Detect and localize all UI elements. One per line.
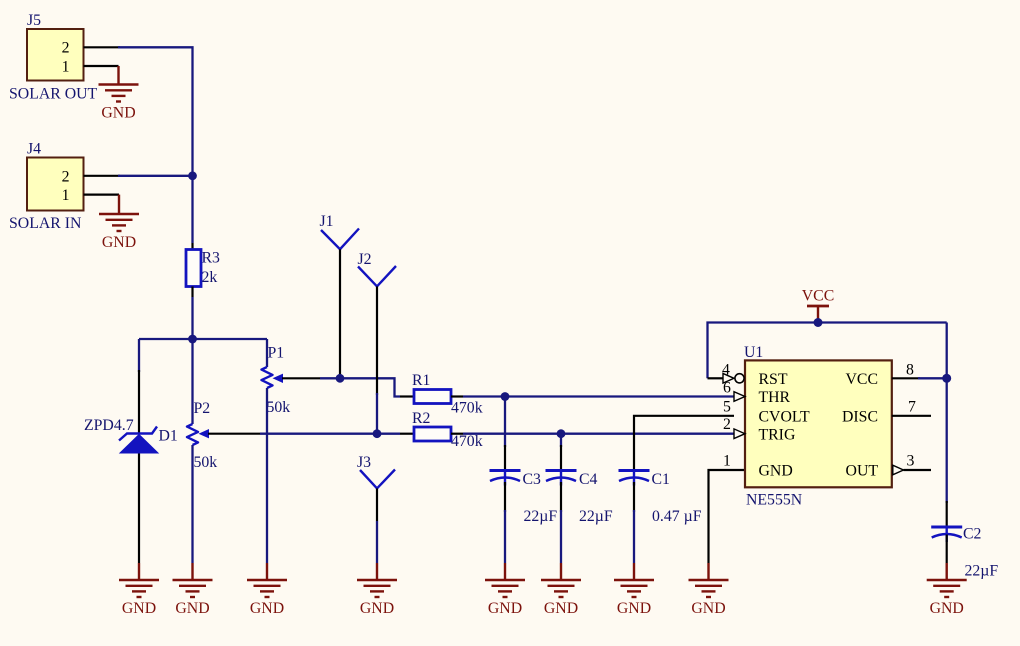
R2 left pin: [400, 433, 414, 435]
svg-text:D1: D1: [159, 428, 178, 445]
U1 pin 2 TRIG triangle: [734, 429, 745, 439]
svg-text:C1: C1: [652, 471, 670, 488]
wire P1 to ground: [266, 388, 268, 563]
ground GND (P2): [173, 563, 213, 617]
svg-text:C3: C3: [523, 471, 542, 488]
wire R1 to THR: [463, 395, 734, 397]
junction (J2 / P2 wiper row): [373, 429, 382, 438]
svg-text:C2: C2: [963, 526, 982, 543]
svg-text:J5: J5: [27, 12, 41, 29]
capacitor C1: [619, 471, 650, 486]
resistor R3: [186, 250, 201, 287]
junction A: [188, 335, 197, 344]
ground GND (C1): [614, 563, 654, 617]
U1 GND pin wire: [709, 470, 746, 563]
potentiometer P1: [262, 367, 321, 388]
wire J2 to trig row: [376, 393, 378, 434]
antenna J2: [358, 266, 396, 286]
svg-text:8: 8: [906, 362, 914, 379]
junction (R2 / C4 / TRIG): [557, 429, 566, 438]
wire J5.2 to bus corner: [118, 47, 193, 176]
svg-text:2: 2: [62, 40, 70, 57]
svg-text:22µF: 22µF: [524, 508, 558, 525]
svg-text:22µF: 22µF: [965, 563, 999, 580]
svg-text:TRIG: TRIG: [759, 426, 796, 443]
U1 pin 6 THR triangle: [734, 392, 745, 402]
ground GND (D1): [119, 563, 159, 617]
svg-text:1: 1: [62, 187, 70, 204]
VCC rail riser: [708, 323, 947, 379]
junction (VCC / rail): [814, 318, 823, 327]
R1 right pin: [451, 395, 463, 397]
svg-text:470k: 470k: [451, 399, 483, 416]
svg-text:2: 2: [723, 416, 731, 433]
wire TRIG junction to C4: [560, 434, 562, 447]
svg-text:C4: C4: [579, 471, 598, 488]
wire C4 to ground: [560, 482, 562, 512]
wire CVOLT to C1: [634, 416, 734, 471]
wire C1 to ground: [633, 482, 635, 512]
svg-text:3: 3: [907, 452, 915, 469]
antenna J3: [360, 470, 395, 489]
svg-text:5: 5: [723, 398, 731, 415]
svg-text:22µF: 22µF: [579, 508, 613, 525]
R3 bottom pin: [191, 287, 193, 298]
antenna J1: [321, 229, 359, 250]
svg-text:CVOLT: CVOLT: [759, 409, 811, 426]
svg-text:GND: GND: [759, 463, 793, 480]
wire A to D1: [138, 339, 140, 372]
svg-text:J3: J3: [357, 454, 371, 471]
J3 stem pin: [376, 488, 378, 521]
junction (R1 / C3 / THR): [501, 392, 510, 401]
ground GND (U1 pin1): [689, 563, 729, 617]
svg-text:50k: 50k: [194, 454, 218, 471]
J4 pin 1: [84, 194, 120, 196]
potentiometer P2: [187, 424, 260, 445]
ground GND (C3): [485, 563, 525, 617]
svg-text:4: 4: [722, 362, 730, 379]
svg-text:J2: J2: [358, 251, 372, 268]
ground GND (C4): [541, 563, 581, 617]
svg-text:VCC: VCC: [846, 371, 878, 388]
J2 stem pin: [376, 286, 378, 395]
svg-text:1: 1: [723, 452, 731, 469]
svg-text:J4: J4: [27, 141, 41, 158]
J5 pin 1: [84, 65, 119, 67]
svg-text:0.47 µF: 0.47 µF: [652, 508, 702, 525]
svg-text:470k: 470k: [451, 433, 483, 450]
ground GND (J4 pin1): [99, 195, 139, 251]
wire R3 to junction A: [191, 297, 193, 339]
wire J3 to ground: [376, 521, 378, 563]
svg-text:2: 2: [62, 168, 70, 185]
svg-text:R1: R1: [412, 372, 430, 389]
svg-text:50k: 50k: [267, 399, 291, 416]
U1 pin 3 OUT triangle: [893, 465, 931, 475]
wire P2 wiper row: [260, 433, 400, 435]
wire A to P1: [266, 339, 268, 367]
wire junction to R3: [191, 176, 193, 243]
wire J4.2 to junction: [118, 175, 193, 177]
zener diode D1: [119, 404, 158, 483]
svg-text:7: 7: [908, 398, 916, 415]
svg-text:1: 1: [62, 59, 70, 76]
svg-text:SOLAR OUT: SOLAR OUT: [9, 86, 98, 103]
svg-text:DISC: DISC: [842, 409, 878, 426]
svg-text:R2: R2: [412, 410, 431, 427]
wire D1 to ground: [138, 483, 140, 563]
wire P1 wiper row: [320, 378, 400, 396]
junction (J1 / P1 wiper): [336, 374, 345, 383]
U1 pin 7: [892, 415, 931, 417]
svg-text:RST: RST: [759, 371, 788, 388]
svg-text:VCC: VCC: [802, 288, 834, 305]
svg-text:SOLAR IN: SOLAR IN: [9, 215, 82, 232]
svg-text:J1: J1: [320, 213, 334, 230]
ground GND (P1): [247, 563, 287, 617]
wire THR junction to C3: [504, 397, 506, 448]
capacitor C3: [490, 471, 521, 486]
J1 stem pin: [339, 249, 341, 374]
connector J5: [27, 29, 84, 81]
wire P2 to ground: [191, 445, 193, 563]
svg-text:P1: P1: [268, 345, 285, 362]
J5 pin 2: [84, 46, 121, 48]
svg-text:NE555N: NE555N: [746, 492, 803, 509]
VCC rail right drop: [946, 323, 948, 379]
svg-text:R3: R3: [202, 250, 221, 267]
connector J4: [27, 158, 84, 211]
svg-text:U1: U1: [744, 344, 763, 361]
op-amp U1 body: [745, 360, 892, 487]
svg-text:6: 6: [723, 380, 731, 397]
junction (J4.2 / J5.2 / R3): [188, 171, 197, 180]
U1 pin 8: [892, 377, 947, 379]
wire rail to C2: [946, 378, 948, 503]
R3 top pin: [191, 243, 193, 250]
R1 left pin: [400, 395, 414, 397]
wire J1 to wiper row: [339, 374, 341, 378]
U1 pin 4 RST: [708, 374, 745, 384]
resistor R1: [414, 390, 451, 404]
ground GND (J5 pin1): [99, 66, 139, 122]
J4 pin 2: [84, 175, 121, 177]
R2 right pin: [451, 433, 463, 435]
wire C3 to ground: [504, 482, 506, 512]
power port VCC: [802, 288, 834, 323]
svg-text:ZPD4.7: ZPD4.7: [84, 417, 134, 434]
svg-text:OUT: OUT: [846, 463, 879, 480]
wire A to P2: [191, 339, 193, 424]
node A horizontal wire: [139, 338, 267, 340]
capacitor C4: [546, 471, 577, 486]
junction (rail / pin8 / C2): [942, 374, 951, 383]
svg-text:2k: 2k: [202, 269, 218, 286]
ground GND (J3): [357, 563, 397, 617]
svg-text:P2: P2: [194, 400, 211, 417]
capacitor C2: [931, 527, 962, 542]
resistor R2: [414, 427, 451, 441]
ground GND (C2): [927, 563, 967, 617]
wire C2 to ground: [946, 535, 948, 564]
svg-text:THR: THR: [759, 389, 791, 406]
wire R2 to TRIG: [463, 433, 734, 435]
